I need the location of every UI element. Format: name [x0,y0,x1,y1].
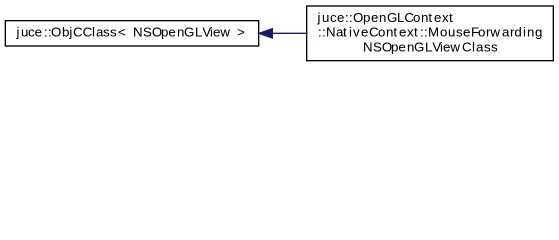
svg-text:NSOpenGLViewClass: NSOpenGLViewClass [363,39,498,54]
svg-text:::NativeContext::MouseForwardi: ::NativeContext::MouseForwarding [318,24,542,39]
node box juce::ObjCClass< NSOpenGLView > [5,21,258,46]
inheritance edge arrowhead [259,29,272,38]
node box juce::OpenGLContext::NativeContext::MouseForwardingNSOpenGLViewClass [307,6,554,61]
inheritance edge wire [273,32,307,34]
